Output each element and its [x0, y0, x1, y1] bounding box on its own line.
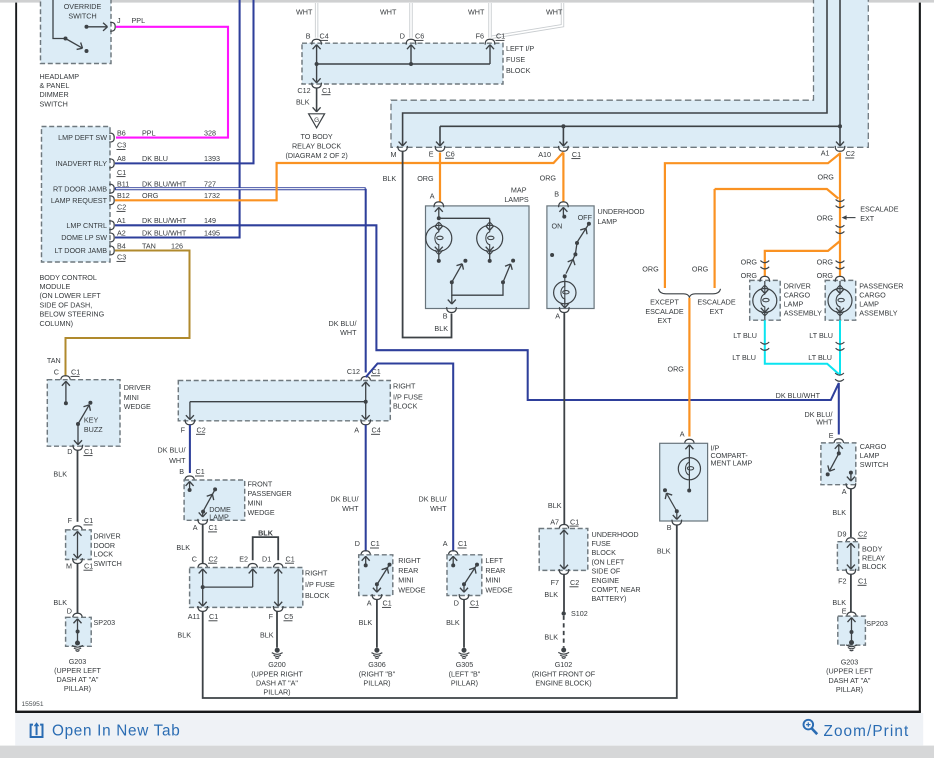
svg-text:ESCALADE: ESCALADE [697, 298, 736, 307]
svg-text:LT BLU: LT BLU [809, 331, 833, 340]
svg-text:DASH AT "A": DASH AT "A" [256, 678, 298, 687]
svg-text:M: M [391, 150, 397, 159]
svg-text:KEY: KEY [84, 415, 99, 424]
svg-text:DK BLU/WHT: DK BLU/WHT [142, 216, 187, 225]
svg-text:DIMMER: DIMMER [40, 90, 69, 99]
svg-text:DK BLU/: DK BLU/ [158, 446, 186, 455]
svg-text:A: A [354, 426, 359, 435]
svg-text:DASH AT "A": DASH AT "A" [829, 676, 871, 685]
svg-text:PILLAR): PILLAR) [363, 678, 390, 687]
svg-text:B12: B12 [117, 191, 130, 200]
svg-text:G203: G203 [69, 657, 87, 666]
svg-text:C: C [192, 554, 197, 563]
svg-text:DASH AT "A": DASH AT "A" [57, 675, 99, 684]
svg-text:DK BLU/: DK BLU/ [419, 495, 447, 504]
svg-text:C1: C1 [286, 554, 295, 563]
svg-text:EXT: EXT [658, 316, 673, 325]
svg-text:D9: D9 [837, 530, 846, 539]
svg-text:BLK: BLK [53, 470, 67, 479]
svg-text:A: A [367, 599, 372, 608]
svg-text:C1: C1 [209, 523, 218, 532]
svg-text:C: C [54, 368, 59, 377]
svg-text:FUSE: FUSE [506, 55, 525, 64]
svg-text:C1: C1 [470, 599, 479, 608]
svg-text:E: E [829, 431, 834, 440]
svg-text:WHT: WHT [816, 417, 833, 426]
svg-text:(ON LOWER LEFT: (ON LOWER LEFT [40, 291, 102, 300]
svg-text:LAMP: LAMP [859, 300, 879, 309]
svg-text:LT DOOR JAMB: LT DOOR JAMB [55, 246, 108, 255]
svg-text:BLOCK: BLOCK [393, 401, 418, 410]
svg-text:A: A [430, 192, 435, 201]
svg-text:ORG: ORG [817, 257, 834, 266]
svg-text:D1: D1 [262, 554, 271, 563]
svg-text:LAMP: LAMP [860, 451, 880, 460]
svg-text:Zoom/Print: Zoom/Print [824, 723, 910, 740]
svg-text:C1: C1 [458, 539, 467, 548]
svg-text:1732: 1732 [204, 191, 220, 200]
svg-text:(DIAGRAM 2 OF 2): (DIAGRAM 2 OF 2) [285, 151, 347, 160]
svg-text:F7: F7 [551, 578, 559, 587]
svg-text:C2: C2 [846, 149, 855, 158]
svg-text:UNDERHOOD: UNDERHOOD [592, 530, 639, 539]
svg-text:F6: F6 [476, 32, 484, 41]
svg-text:D: D [355, 539, 360, 548]
svg-text:BLK: BLK [176, 543, 190, 552]
svg-text:1393: 1393 [204, 154, 220, 163]
svg-text:FRONT: FRONT [248, 479, 273, 488]
svg-text:C1: C1 [496, 32, 505, 41]
svg-text:CARGO: CARGO [784, 290, 811, 299]
svg-text:C2: C2 [570, 578, 579, 587]
svg-text:LMP DEFT SW: LMP DEFT SW [58, 133, 107, 142]
svg-text:DK BLU: DK BLU [142, 154, 168, 163]
svg-text:REAR: REAR [398, 566, 418, 575]
svg-text:C3: C3 [117, 141, 126, 150]
svg-text:C2: C2 [209, 554, 218, 563]
svg-text:S102: S102 [571, 609, 588, 618]
svg-text:ORG: ORG [668, 365, 685, 374]
svg-text:A1: A1 [821, 148, 830, 157]
svg-text:(ON LEFT: (ON LEFT [592, 557, 625, 566]
svg-text:SIDE OF: SIDE OF [592, 567, 621, 576]
svg-text:WHT: WHT [380, 7, 397, 16]
svg-text:C1: C1 [858, 577, 867, 586]
svg-text:MENT LAMP: MENT LAMP [711, 458, 753, 467]
svg-text:C1: C1 [322, 86, 331, 95]
svg-text:C6: C6 [446, 149, 455, 158]
svg-text:WHT: WHT [468, 7, 485, 16]
svg-text:ORG: ORG [692, 265, 709, 274]
svg-text:G306: G306 [368, 660, 386, 669]
svg-text:MINI: MINI [398, 576, 413, 585]
svg-text:LT BLU: LT BLU [732, 353, 756, 362]
svg-text:G203: G203 [841, 658, 859, 667]
svg-text:BLOCK: BLOCK [506, 66, 531, 75]
svg-text:B: B [554, 190, 559, 199]
svg-text:F: F [181, 426, 186, 435]
svg-text:C1: C1 [383, 599, 392, 608]
svg-text:ORG: ORG [540, 174, 557, 183]
svg-text:INADVERT RLY: INADVERT RLY [55, 159, 107, 168]
svg-text:BLK: BLK [260, 630, 274, 639]
svg-text:& PANEL: & PANEL [40, 81, 70, 90]
svg-text:SP203: SP203 [866, 619, 888, 628]
svg-text:C1: C1 [84, 516, 93, 525]
svg-text:OFF: OFF [578, 213, 593, 222]
svg-text:EXT: EXT [710, 307, 725, 316]
svg-text:G102: G102 [555, 660, 573, 669]
svg-text:COLUMN): COLUMN) [40, 319, 74, 328]
svg-text:Open In New Tab: Open In New Tab [52, 722, 180, 739]
svg-text:PILLAR): PILLAR) [263, 688, 290, 697]
svg-text:DK BLU/: DK BLU/ [329, 319, 357, 328]
svg-text:F: F [68, 516, 73, 525]
svg-text:WHT: WHT [430, 504, 447, 513]
svg-text:1495: 1495 [204, 228, 220, 237]
svg-text:G200: G200 [268, 660, 286, 669]
svg-text:E: E [842, 606, 847, 615]
svg-text:OVERRIDE: OVERRIDE [64, 2, 102, 11]
svg-text:A: A [680, 430, 685, 439]
svg-text:C1: C1 [209, 612, 218, 621]
svg-text:D: D [67, 606, 72, 615]
svg-text:DOME LP SW: DOME LP SW [61, 233, 107, 242]
svg-text:PILLAR): PILLAR) [836, 685, 863, 694]
svg-text:(UPPER LEFT: (UPPER LEFT [54, 666, 101, 675]
svg-text:PILLAR): PILLAR) [64, 684, 91, 693]
svg-text:SWITCH: SWITCH [94, 559, 122, 568]
svg-text:BELOW STEERING: BELOW STEERING [40, 310, 105, 319]
svg-text:C1: C1 [84, 561, 93, 570]
svg-text:C6: C6 [415, 32, 424, 41]
svg-text:ORG: ORG [417, 174, 434, 183]
svg-text:C12: C12 [347, 367, 360, 376]
svg-text:SWITCH: SWITCH [68, 12, 96, 21]
svg-text:BLK: BLK [383, 174, 397, 183]
svg-text:BLK: BLK [177, 630, 191, 639]
svg-text:B11: B11 [117, 180, 129, 189]
svg-text:ESCALADE: ESCALADE [860, 204, 899, 213]
svg-text:C3: C3 [117, 253, 126, 262]
svg-text:BLK: BLK [296, 98, 310, 107]
svg-text:J: J [117, 16, 121, 25]
svg-text:C1: C1 [371, 539, 380, 548]
svg-text:G: G [314, 117, 319, 124]
svg-text:DRIVER: DRIVER [94, 532, 121, 541]
svg-text:LEFT: LEFT [485, 556, 503, 565]
svg-text:328: 328 [204, 128, 216, 137]
svg-text:C2: C2 [197, 426, 206, 435]
svg-text:MINI: MINI [248, 498, 263, 507]
svg-text:FUSE: FUSE [592, 539, 611, 548]
svg-text:LEFT I/P: LEFT I/P [506, 44, 534, 53]
svg-text:126: 126 [171, 241, 183, 250]
svg-text:ORG: ORG [818, 173, 835, 182]
svg-text:PILLAR): PILLAR) [451, 678, 478, 687]
svg-text:B: B [179, 467, 184, 476]
svg-text:A: A [842, 487, 847, 496]
svg-text:SWITCH: SWITCH [40, 99, 68, 108]
svg-text:ORG: ORG [142, 191, 159, 200]
svg-text:PPL: PPL [132, 16, 146, 25]
svg-text:BODY: BODY [862, 544, 883, 553]
svg-text:D: D [400, 32, 405, 41]
svg-text:HEADLAMP: HEADLAMP [40, 72, 80, 81]
svg-text:BLK: BLK [657, 547, 671, 556]
svg-text:LAMP REQUEST: LAMP REQUEST [51, 196, 108, 205]
svg-text:C4: C4 [320, 32, 329, 41]
svg-text:ORG: ORG [817, 214, 834, 223]
svg-text:BLOCK: BLOCK [305, 591, 330, 600]
svg-text:BLK: BLK [548, 501, 562, 510]
svg-text:F: F [269, 612, 274, 621]
svg-text:A: A [443, 539, 448, 548]
svg-text:WEDGE: WEDGE [398, 586, 425, 595]
svg-text:ENGINE: ENGINE [592, 576, 620, 585]
svg-text:E2: E2 [239, 554, 248, 563]
svg-text:C1: C1 [84, 447, 93, 456]
svg-text:DK BLU/: DK BLU/ [331, 495, 359, 504]
svg-text:MODULE: MODULE [40, 282, 71, 291]
svg-text:ESCALADE: ESCALADE [645, 307, 684, 316]
svg-text:C5: C5 [284, 612, 293, 621]
svg-text:A7: A7 [550, 517, 559, 526]
svg-text:BLOCK: BLOCK [862, 562, 887, 571]
svg-text:B: B [443, 312, 448, 321]
svg-text:MINI: MINI [485, 576, 500, 585]
svg-text:SIDE OF DASH,: SIDE OF DASH, [40, 300, 93, 309]
svg-text:(UPPER RIGHT: (UPPER RIGHT [251, 669, 303, 678]
svg-text:A11: A11 [188, 612, 200, 621]
svg-text:149: 149 [204, 216, 216, 225]
svg-text:C1: C1 [117, 168, 126, 177]
svg-text:I/P FUSE: I/P FUSE [393, 393, 423, 402]
svg-text:B4: B4 [117, 241, 126, 250]
svg-text:RT DOOR JAMB: RT DOOR JAMB [53, 184, 107, 193]
svg-text:CARGO: CARGO [859, 290, 886, 299]
svg-text:BUZZ: BUZZ [84, 425, 103, 434]
svg-text:C2: C2 [117, 203, 126, 212]
svg-text:C1: C1 [570, 517, 579, 526]
svg-text:LAMP: LAMP [784, 300, 804, 309]
svg-text:MINI: MINI [124, 393, 139, 402]
svg-text:A2: A2 [117, 228, 126, 237]
svg-text:UNDERHOOD: UNDERHOOD [598, 207, 645, 216]
svg-text:TAN: TAN [47, 356, 61, 365]
svg-text:(RIGHT FRONT OF: (RIGHT FRONT OF [532, 669, 596, 678]
svg-text:B: B [667, 523, 672, 532]
svg-text:ASSEMBLY: ASSEMBLY [859, 309, 897, 318]
svg-text:WHT: WHT [169, 456, 186, 465]
svg-text:ORG: ORG [817, 271, 834, 280]
svg-text:LT BLU: LT BLU [808, 353, 832, 362]
svg-text:C4: C4 [372, 426, 381, 435]
svg-text:LAMP: LAMP [209, 513, 229, 522]
svg-text:155951: 155951 [22, 701, 44, 708]
svg-text:G305: G305 [456, 660, 474, 669]
svg-text:I/P FUSE: I/P FUSE [305, 580, 335, 589]
svg-text:LOCK: LOCK [94, 549, 114, 558]
svg-text:ENGINE BLOCK): ENGINE BLOCK) [535, 678, 591, 687]
svg-text:WHT: WHT [546, 7, 563, 16]
svg-text:BLK: BLK [832, 508, 846, 517]
svg-text:LMP CNTRL: LMP CNTRL [66, 221, 107, 230]
svg-text:DRIVER: DRIVER [124, 383, 151, 392]
svg-text:D: D [67, 447, 72, 456]
svg-text:727: 727 [204, 180, 216, 189]
svg-text:C12: C12 [297, 86, 310, 95]
svg-text:EXCEPT: EXCEPT [650, 298, 679, 307]
svg-text:BLK: BLK [544, 632, 558, 641]
svg-text:PASSENGER: PASSENGER [248, 489, 292, 498]
svg-text:C1: C1 [71, 368, 80, 377]
svg-text:(LEFT "B": (LEFT "B" [449, 669, 481, 678]
svg-text:TAN: TAN [142, 241, 156, 250]
svg-text:SP203: SP203 [94, 618, 116, 627]
svg-text:C1: C1 [572, 150, 581, 159]
svg-text:LT BLU: LT BLU [733, 331, 757, 340]
svg-text:RIGHT: RIGHT [398, 556, 421, 565]
svg-text:LAMPS: LAMPS [504, 195, 529, 204]
svg-text:EXT: EXT [860, 214, 875, 223]
svg-text:ON: ON [552, 221, 563, 230]
svg-text:BLK: BLK [53, 598, 67, 607]
svg-text:WHT: WHT [296, 7, 313, 16]
svg-text:DK BLU/WHT: DK BLU/WHT [142, 228, 187, 237]
svg-text:ASSEMBLY: ASSEMBLY [784, 309, 822, 318]
svg-text:E: E [429, 149, 434, 158]
svg-text:WEDGE: WEDGE [485, 586, 512, 595]
svg-text:F2: F2 [838, 577, 846, 586]
svg-text:B6: B6 [117, 128, 126, 137]
svg-text:B: B [306, 32, 311, 41]
svg-text:WEDGE: WEDGE [248, 508, 275, 517]
svg-text:COMPT, NEAR: COMPT, NEAR [592, 585, 641, 594]
svg-text:RELAY BLOCK: RELAY BLOCK [292, 142, 341, 151]
svg-text:REAR: REAR [485, 566, 505, 575]
svg-text:ORG: ORG [642, 265, 659, 274]
svg-text:LAMP: LAMP [598, 217, 618, 226]
svg-text:DK BLU/WHT: DK BLU/WHT [776, 391, 821, 400]
svg-text:SWITCH: SWITCH [860, 460, 888, 469]
svg-text:A8: A8 [117, 154, 126, 163]
svg-text:CARGO: CARGO [860, 442, 887, 451]
svg-text:DK BLU/WHT: DK BLU/WHT [142, 180, 187, 189]
svg-text:D: D [454, 599, 459, 608]
svg-text:ORG: ORG [741, 257, 758, 266]
svg-text:A10: A10 [538, 150, 551, 159]
svg-text:BLK: BLK [544, 590, 558, 599]
svg-text:A: A [193, 523, 198, 532]
svg-text:(UPPER LEFT: (UPPER LEFT [826, 667, 873, 676]
svg-text:TO BODY: TO BODY [300, 132, 332, 141]
svg-text:BODY CONTROL: BODY CONTROL [40, 273, 97, 282]
svg-text:DRIVER: DRIVER [784, 281, 811, 290]
svg-text:WEDGE: WEDGE [124, 402, 151, 411]
svg-text:MAP: MAP [511, 185, 527, 194]
svg-text:C1: C1 [196, 467, 205, 476]
svg-text:BLK: BLK [258, 528, 274, 537]
svg-text:PPL: PPL [142, 128, 156, 137]
svg-text:ORG: ORG [741, 271, 758, 280]
svg-text:C2: C2 [858, 530, 867, 539]
svg-text:BLK: BLK [446, 618, 460, 627]
svg-text:A1: A1 [117, 216, 126, 225]
svg-text:BLK: BLK [359, 618, 373, 627]
svg-text:WHT: WHT [342, 504, 359, 513]
svg-text:WHT: WHT [340, 328, 357, 337]
svg-text:PASSENGER: PASSENGER [859, 281, 903, 290]
svg-text:RIGHT: RIGHT [305, 569, 328, 578]
svg-text:(RIGHT "B": (RIGHT "B" [359, 669, 396, 678]
svg-text:BLOCK: BLOCK [592, 548, 617, 557]
svg-text:M: M [66, 561, 72, 570]
svg-text:RIGHT: RIGHT [393, 381, 416, 390]
svg-text:BLK: BLK [434, 324, 448, 333]
svg-text:A: A [555, 311, 560, 320]
svg-text:BATTERY): BATTERY) [592, 594, 627, 603]
